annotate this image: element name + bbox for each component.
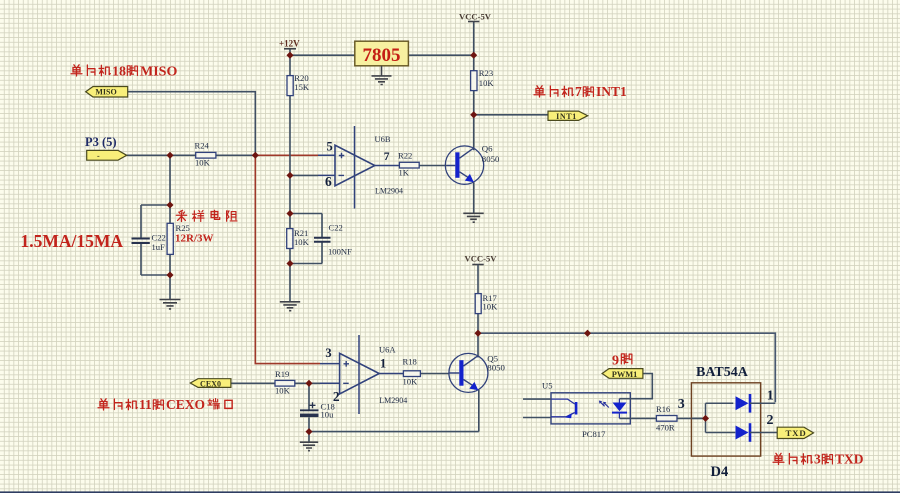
- port CEXO: [190, 379, 231, 389]
- svg-text:PC817: PC817: [582, 429, 606, 439]
- svg-text:3: 3: [325, 346, 331, 360]
- label 单片机11脚CEXO端口: [98, 397, 232, 412]
- svg-text:9: 9: [612, 354, 619, 369]
- junction dots top section: [166, 52, 477, 279]
- resistor R17 10K: [475, 293, 498, 314]
- wire VCC-5V to R23 INT1 and Q6: [474, 22, 548, 214]
- svg-text:7: 7: [384, 151, 390, 163]
- svg-text:INT1: INT1: [556, 112, 577, 121]
- svg-text:TXD: TXD: [786, 428, 807, 438]
- svg-text:10K: 10K: [195, 157, 211, 167]
- wire CEXO R19 to pin2: [231, 382, 320, 384]
- regulator 7805: [355, 41, 409, 66]
- port INT1: [548, 111, 588, 121]
- svg-text:VCC-5V: VCC-5V: [459, 12, 492, 22]
- svg-text:11: 11: [139, 397, 152, 412]
- svg-text:R23: R23: [479, 68, 493, 78]
- svg-text:18: 18: [112, 65, 126, 80]
- port TXD: [777, 427, 813, 438]
- svg-text:7805: 7805: [363, 45, 401, 66]
- svg-text:TXD: TXD: [835, 452, 864, 467]
- wire PWM1 to LED anode: [619, 374, 652, 399]
- svg-text:10K: 10K: [403, 376, 419, 386]
- port P3: [87, 150, 127, 160]
- svg-text:1uF: 1uF: [152, 242, 166, 252]
- wire R21/C22 parallel rails and ground: [290, 214, 322, 302]
- svg-text:10K: 10K: [479, 78, 495, 88]
- diode D4b: [736, 423, 778, 442]
- label 单片机3脚TXD: [773, 452, 864, 467]
- wire VCC to R17 to node: [477, 265, 479, 358]
- wire C18 branch and ground return: [309, 383, 479, 442]
- resistor R18 10K: [403, 357, 421, 387]
- capacitor C22 1uF: [132, 233, 166, 253]
- power VCC-5V top: [459, 12, 492, 22]
- power +12V: [279, 38, 300, 49]
- svg-text:LM2904: LM2904: [375, 187, 403, 196]
- svg-text:BAT54A: BAT54A: [696, 365, 749, 380]
- capacitor C18 10u: [300, 402, 335, 420]
- resistor R21 10K: [287, 228, 310, 249]
- wire U6A out to Q5 base: [421, 373, 450, 375]
- resistor R24 10K: [195, 141, 216, 168]
- svg-text:U6A: U6A: [379, 344, 396, 354]
- svg-text:CEX0: CEX0: [200, 380, 221, 389]
- wire P3 node down to sampling network: [141, 155, 170, 299]
- transistor Q5 8050: [449, 353, 506, 392]
- svg-text:MISO: MISO: [140, 65, 177, 80]
- wire red net vertical to U6A pin3: [255, 155, 320, 363]
- diode D4a: [736, 394, 776, 413]
- wire LED cathode to R16 to D4: [619, 417, 705, 419]
- wire red net pin5: [255, 154, 318, 156]
- svg-text:INT1: INT1: [596, 84, 627, 99]
- svg-text:1K: 1K: [399, 167, 410, 177]
- svg-text:U6B: U6B: [375, 134, 391, 144]
- diode pair D4 box: [691, 383, 760, 456]
- bottom edge dark strip: [0, 491, 900, 493]
- svg-text:1: 1: [767, 389, 774, 404]
- label 9脚: [612, 354, 632, 369]
- wire collector node long feedback rail: [478, 333, 775, 402]
- svg-text:R24: R24: [195, 141, 210, 151]
- svg-text:100NF: 100NF: [328, 247, 352, 257]
- resistor R22 1K: [398, 151, 419, 178]
- svg-text:10u: 10u: [321, 410, 335, 420]
- svg-text:470R: 470R: [656, 422, 675, 432]
- svg-text:P3 (5): P3 (5): [85, 135, 117, 149]
- ground below R25/C22: [160, 300, 181, 309]
- svg-text:8050: 8050: [482, 154, 500, 164]
- svg-text:D4: D4: [711, 464, 729, 480]
- ground below R21: [280, 302, 300, 311]
- svg-text:6: 6: [325, 174, 332, 189]
- svg-text:LM2904: LM2904: [379, 396, 407, 405]
- svg-text:10K: 10K: [483, 302, 499, 312]
- svg-text:12R/3W: 12R/3W: [175, 232, 214, 244]
- wire MISO net: [128, 92, 256, 156]
- svg-text:15K: 15K: [294, 82, 310, 92]
- wire U6B pin6: [290, 174, 318, 176]
- svg-text:MISO: MISO: [95, 87, 116, 96]
- svg-text:R18: R18: [403, 357, 417, 367]
- svg-text:+12V: +12V: [279, 38, 300, 48]
- label 采样电阻: [176, 210, 237, 221]
- ground below Q6: [463, 213, 483, 222]
- svg-text:-: -: [97, 152, 100, 161]
- ground below 7805: [372, 66, 392, 85]
- svg-text:CEXO: CEXO: [166, 397, 205, 412]
- wire U6B out to Q6 base: [419, 165, 447, 167]
- port PWM1: [602, 369, 643, 380]
- transistor Q6 8050: [445, 144, 500, 185]
- label 单片机7脚INT1: [534, 84, 627, 99]
- svg-text:7: 7: [575, 84, 582, 99]
- ground below C18: [300, 442, 318, 451]
- svg-text:10K: 10K: [294, 237, 310, 247]
- svg-text:U5: U5: [542, 381, 553, 391]
- port MISO: [86, 87, 128, 98]
- svg-text:3: 3: [678, 397, 685, 412]
- wire P3 to R24: [127, 154, 256, 156]
- resistor R20 15K: [287, 73, 310, 96]
- svg-text:R22: R22: [398, 151, 412, 161]
- op-amp U6B: [318, 126, 403, 209]
- svg-text:VCC-5V: VCC-5V: [465, 253, 498, 263]
- resistor R25: [167, 223, 190, 254]
- op-amp U6A: [320, 335, 407, 414]
- resistor R16 470R: [656, 404, 677, 432]
- power VCC-5V bottom: [465, 253, 498, 264]
- svg-text:2: 2: [767, 413, 774, 428]
- svg-text:1.5MA/15MA: 1.5MA/15MA: [21, 231, 124, 251]
- svg-text:C22: C22: [329, 223, 343, 233]
- svg-text:1: 1: [380, 356, 386, 370]
- junction dots bottom section: [305, 330, 709, 435]
- svg-text:PWM1: PWM1: [612, 370, 638, 379]
- optocoupler U5 PC817: [523, 381, 630, 439]
- capacitor C22 100NF: [314, 223, 352, 257]
- label 单片机18脚MISO: [71, 65, 177, 80]
- svg-text:R19: R19: [275, 369, 289, 379]
- wire +12V rail to 7805 and R20: [290, 49, 474, 214]
- resistor R19 10K: [275, 369, 295, 396]
- resistor R23 10K: [471, 68, 495, 90]
- svg-text:Q6: Q6: [482, 144, 493, 154]
- svg-text:C22: C22: [152, 233, 166, 243]
- svg-text:8050: 8050: [487, 363, 505, 373]
- svg-text:R16: R16: [656, 404, 671, 414]
- svg-text:5: 5: [327, 139, 333, 153]
- svg-text:10K: 10K: [275, 386, 291, 396]
- svg-text:3: 3: [814, 452, 821, 467]
